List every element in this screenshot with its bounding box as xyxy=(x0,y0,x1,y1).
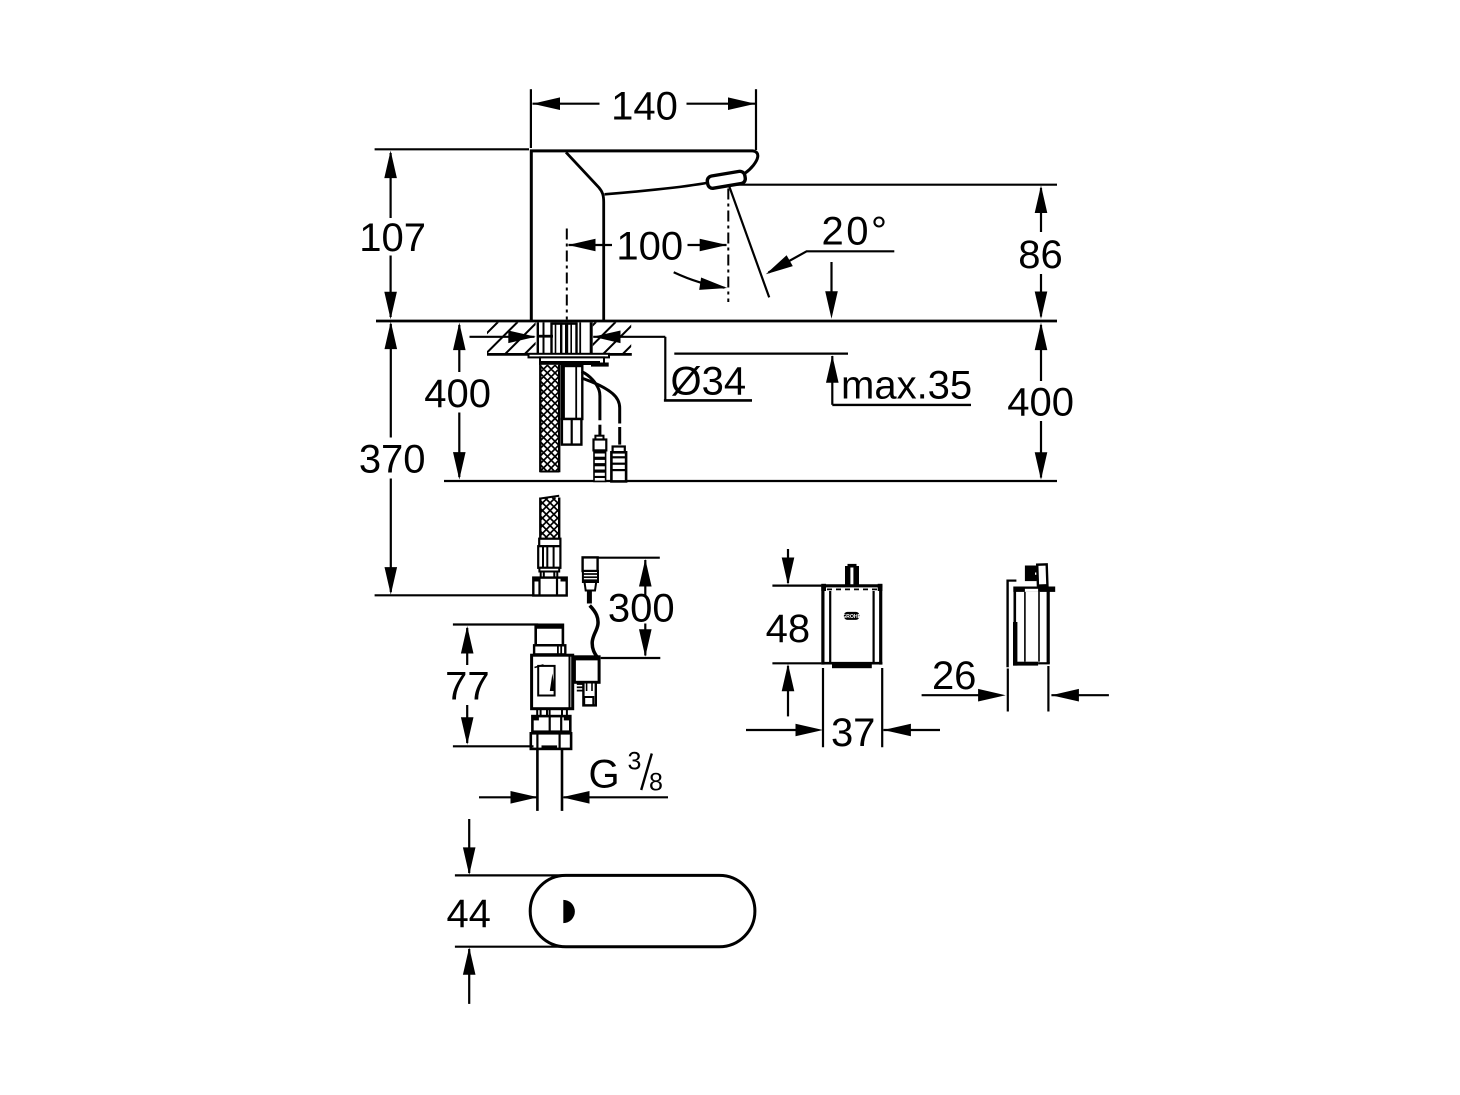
svg-text:86: 86 xyxy=(1018,233,1063,277)
svg-text:77: 77 xyxy=(445,665,490,709)
svg-text:48: 48 xyxy=(766,607,811,651)
svg-text:370: 370 xyxy=(359,437,426,481)
svg-text:max.35: max.35 xyxy=(841,363,972,407)
svg-text:8: 8 xyxy=(649,769,663,797)
svg-text:GROHE: GROHE xyxy=(842,614,862,620)
svg-text:100: 100 xyxy=(616,225,683,269)
svg-text:3: 3 xyxy=(628,748,642,776)
svg-text:37: 37 xyxy=(831,711,876,755)
svg-text:300: 300 xyxy=(608,587,675,631)
svg-text:400: 400 xyxy=(1007,380,1074,424)
svg-text:G: G xyxy=(589,753,620,797)
svg-text:44: 44 xyxy=(446,892,491,936)
svg-text:20°: 20° xyxy=(822,210,890,254)
svg-text:Ø34: Ø34 xyxy=(671,359,747,403)
svg-text:26: 26 xyxy=(932,654,977,698)
svg-text:107: 107 xyxy=(359,216,426,260)
svg-text:140: 140 xyxy=(611,85,678,129)
svg-text:400: 400 xyxy=(424,372,491,416)
